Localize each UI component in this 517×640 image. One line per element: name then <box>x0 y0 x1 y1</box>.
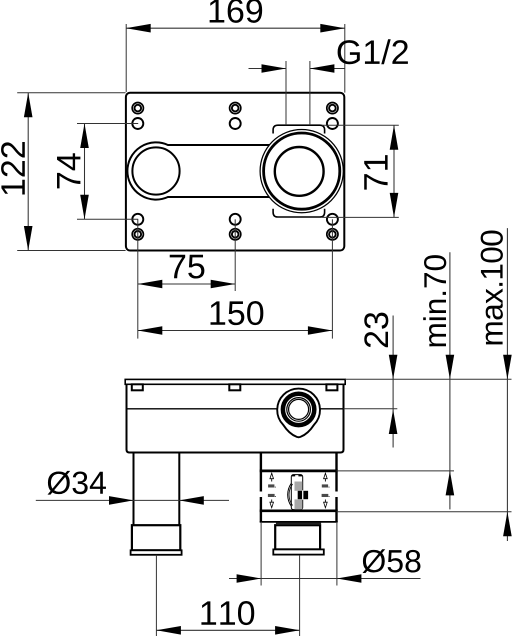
dimension line G1/2 left tail <box>249 68 287 70</box>
arrowhead 23 down <box>389 355 398 380</box>
extension line 71 top <box>322 124 399 126</box>
right foot cuff <box>273 549 324 554</box>
left pipe wall left <box>133 453 135 526</box>
label G1/2 <box>338 39 408 64</box>
extension line 23 bottom <box>344 408 398 410</box>
extension line 75/150 left <box>137 219 139 338</box>
window top bar <box>260 469 338 472</box>
left port and connecting bar (dumbbell outline) <box>127 142 301 199</box>
label 169 <box>210 0 263 23</box>
dimension line 169 <box>126 27 345 29</box>
arrowhead d58 right <box>337 574 362 583</box>
housing wall left <box>260 453 262 522</box>
dimension line G1/2 right tail <box>310 68 345 70</box>
label 71 <box>364 155 387 189</box>
body internal line <box>127 408 344 410</box>
arrowhead 169 left <box>126 24 151 33</box>
arrowhead 169 right <box>320 24 345 33</box>
valve inner circle <box>275 147 324 196</box>
left foot cuff <box>131 550 182 555</box>
dimension line 74 <box>84 124 86 220</box>
tiny depth arrow right <box>322 473 330 508</box>
extension line max100 bottom <box>337 511 512 513</box>
port ring thin <box>287 398 311 422</box>
arrowhead G1/2 right <box>310 64 335 73</box>
extension line flange top <box>345 378 511 380</box>
extension line G1/2 right <box>309 61 311 125</box>
dimension line diameter 34 <box>36 499 229 501</box>
screw top-right <box>327 103 338 114</box>
arrowhead 150 left <box>138 326 163 335</box>
arrowhead 23 up <box>389 410 398 435</box>
clip tab left <box>132 384 143 390</box>
extension line 75 right <box>234 219 236 291</box>
screw bottom-left <box>132 229 143 240</box>
hole top-middle <box>230 118 241 129</box>
clip tab right <box>326 384 337 390</box>
port ring bold <box>283 394 314 425</box>
plate outline <box>126 93 344 251</box>
label diameter 58 <box>363 549 421 573</box>
window bottom bar <box>260 509 338 512</box>
housing wall port notch left <box>259 492 262 498</box>
arrowhead 75 right <box>211 280 236 289</box>
label 74 <box>57 153 80 188</box>
label 150 <box>211 301 264 325</box>
arrowhead G1/2 left <box>262 64 287 73</box>
cartridge top cap dashes <box>292 474 295 476</box>
screw top-left <box>132 103 143 114</box>
body outline <box>127 384 344 452</box>
tiny depth arrow left <box>268 473 276 508</box>
label 23 <box>364 313 388 348</box>
hole top-left <box>132 118 143 129</box>
cartridge outline <box>291 475 302 510</box>
label 122 <box>1 142 25 194</box>
cartridge left bulge <box>288 483 292 507</box>
left port inner circle <box>132 147 179 194</box>
arrowhead 75 left <box>138 280 163 289</box>
arrowhead max100 down <box>503 355 512 380</box>
dimension line 150 <box>138 330 333 332</box>
extension line 71 bottom <box>322 216 399 218</box>
flange strip <box>125 379 345 384</box>
extension line min70 bottom <box>337 470 455 472</box>
extension line 74 bottom <box>77 218 138 220</box>
extension line 169 left <box>125 24 127 92</box>
valve middle circle <box>264 133 340 209</box>
screw top-middle <box>230 103 241 114</box>
label min.70 <box>423 255 446 346</box>
dimension max100 line <box>506 228 508 541</box>
dimension line d58 <box>229 578 421 580</box>
arrowhead d58 left <box>237 574 262 583</box>
arrowhead 122 bottom <box>24 226 33 251</box>
left pipe wall right <box>178 453 180 526</box>
arrowhead 74 top <box>80 124 89 149</box>
dimension line 122 <box>27 93 29 251</box>
label diameter 34 <box>48 471 106 495</box>
arrowhead min70 up <box>446 471 455 496</box>
dimension 23 line <box>392 316 394 448</box>
boss flat bottom <box>273 209 325 217</box>
label 110 <box>201 601 254 625</box>
arrowhead min70 down <box>446 355 455 380</box>
extension line d58 left <box>260 523 262 586</box>
arrowhead 150 right <box>308 326 333 335</box>
arrowhead 71 top <box>390 125 399 150</box>
port bore <box>289 399 309 419</box>
housing wall right <box>335 453 337 522</box>
extension line d58 right <box>336 523 338 586</box>
extension line 110 right <box>299 555 301 636</box>
arrowhead d34 right <box>179 496 204 505</box>
boss flat top <box>273 125 325 133</box>
dimension line 110 <box>156 629 299 631</box>
cartridge stem black left <box>298 491 302 499</box>
arrowhead 71 bottom <box>390 193 399 218</box>
hole bottom-left <box>132 214 143 225</box>
arrowhead 110 left <box>156 626 181 635</box>
dimension min70 line <box>449 252 451 509</box>
dimension line 71 <box>393 125 395 217</box>
arrowhead max100 up <box>503 512 512 537</box>
extension line G1/2 left <box>285 61 287 125</box>
label 75 <box>170 255 205 279</box>
housing wall port notch right <box>335 492 338 498</box>
extension line 110 left <box>155 555 157 636</box>
clip tab middle <box>229 384 240 390</box>
cartridge stem black right <box>303 491 308 499</box>
arrowhead 110 right <box>275 626 300 635</box>
hole top-right <box>327 118 338 129</box>
cartridge hatch lower <box>295 499 303 509</box>
arrowhead d34 left <box>109 496 134 505</box>
hole bottom-right <box>327 214 338 225</box>
extension line 150 right <box>331 219 333 338</box>
label max.100 <box>481 231 503 345</box>
port shield <box>277 389 320 438</box>
cartridge hatch upper <box>295 482 303 491</box>
extension line 169 right <box>344 24 346 93</box>
extension line 74 top <box>77 123 138 125</box>
right foot top line <box>276 522 321 524</box>
right foot <box>275 525 320 549</box>
valve outer circle <box>260 130 343 213</box>
screw bottom-right <box>327 229 338 240</box>
extension line 122 top <box>17 92 125 94</box>
hole bottom-middle <box>230 214 241 225</box>
cartridge stem white gap <box>302 490 303 499</box>
dimension line 75 <box>138 283 235 285</box>
screw bottom-middle <box>230 229 241 240</box>
arrowhead 74 bottom <box>80 195 89 220</box>
left foot <box>132 525 180 550</box>
arrowhead 122 top <box>24 93 33 118</box>
extension line 122 bottom <box>17 250 125 252</box>
housing bottom line <box>260 521 338 523</box>
